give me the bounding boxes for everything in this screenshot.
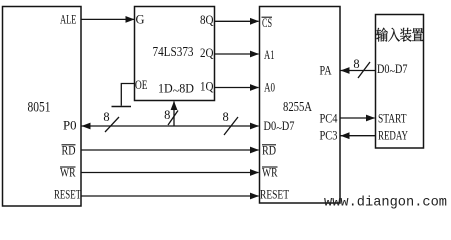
wire RESET (8051 to 8255) xyxy=(81,193,259,200)
svg-text:CS: CS xyxy=(262,16,272,30)
wire PA bus from input device D0~D7 xyxy=(341,67,376,74)
svg-text:RESET: RESET xyxy=(260,188,289,202)
bus width label 8 (near P0) xyxy=(103,110,109,124)
bus width slash on branch to 74LS373 xyxy=(168,111,178,126)
pin label 1Q xyxy=(200,80,214,94)
pin label 1D~8D xyxy=(158,81,194,98)
pin label OE xyxy=(135,78,148,92)
svg-text:8: 8 xyxy=(353,57,359,71)
pin label RESET (8051) xyxy=(54,188,81,202)
svg-text:ALE: ALE xyxy=(60,13,77,27)
svg-text:8255A: 8255A xyxy=(283,100,313,115)
svg-text:74LS373: 74LS373 xyxy=(153,45,194,60)
pin label REDAY xyxy=(378,129,408,143)
pin label WR (8255, active low) xyxy=(262,166,278,180)
svg-text:START: START xyxy=(378,112,407,126)
svg-text:8: 8 xyxy=(164,108,170,122)
pin label PC4 xyxy=(320,112,339,126)
pin label START xyxy=(378,112,407,126)
wire bus branch to 1D~8D xyxy=(171,101,178,126)
block 74LS373 (address latch) xyxy=(135,7,215,101)
pin label G xyxy=(136,13,145,27)
svg-text:WR: WR xyxy=(60,166,76,180)
bus width label 8 (PA bus) xyxy=(353,57,359,71)
svg-text:www.diangon.com: www.diangon.com xyxy=(324,195,447,211)
svg-text:8: 8 xyxy=(103,110,109,124)
pin label 2Q xyxy=(200,46,214,60)
pin label WR (8051, active low) xyxy=(60,166,76,180)
svg-text:WR: WR xyxy=(262,166,278,180)
pin label D0~D7 (input device) xyxy=(377,62,408,78)
svg-text:PA: PA xyxy=(320,64,332,78)
svg-text:RD: RD xyxy=(62,144,76,158)
pin label D0~D7 (8255) xyxy=(264,119,295,135)
svg-text:1D~8D: 1D~8D xyxy=(158,81,194,98)
pin label CS (active low) xyxy=(262,16,273,30)
wire OE to ground xyxy=(121,84,134,106)
svg-text:D0~D7: D0~D7 xyxy=(264,119,295,135)
wire 1Q to A0 xyxy=(215,84,260,91)
svg-text:2Q: 2Q xyxy=(200,46,214,60)
svg-text:RESET: RESET xyxy=(54,188,81,202)
svg-text:1Q: 1Q xyxy=(200,80,214,94)
wire 8Q to CS xyxy=(215,18,260,25)
svg-text:A0: A0 xyxy=(264,80,275,94)
label 8255A xyxy=(283,100,313,115)
pin label RD (8051, active low) xyxy=(62,144,76,158)
wire 2Q to A1 xyxy=(215,51,260,58)
label 8051 xyxy=(28,99,51,115)
label 输入装置 (input device) xyxy=(376,28,423,42)
wire P0 data bus (8051 P0 - 8255 D0~D7) xyxy=(82,123,260,130)
bus width slash on PA bus xyxy=(358,62,370,78)
bus width label 8 (near 8255) xyxy=(222,110,228,124)
pin label P0 xyxy=(63,119,77,133)
svg-text:8: 8 xyxy=(222,110,228,124)
block 8051 (MCU) xyxy=(3,7,82,207)
watermark www.diangon.com xyxy=(324,195,447,211)
pin label ALE xyxy=(60,13,77,27)
pin label A1 xyxy=(264,48,275,62)
wire WR (8051 to 8255) xyxy=(81,169,259,176)
block input device (输入装置) xyxy=(376,15,424,149)
pin label 8Q xyxy=(200,13,214,27)
pin label RD (8255, active low) xyxy=(262,144,276,158)
svg-text:OE: OE xyxy=(135,78,148,92)
svg-text:A1: A1 xyxy=(264,48,275,62)
bus width label 8 (branch) xyxy=(164,108,170,122)
wire ALE to G xyxy=(81,16,135,23)
bus width slash near 8051 P0 xyxy=(105,117,119,132)
pin label RESET (8255) xyxy=(260,188,289,202)
block 8255A (programmable peripheral interface) xyxy=(260,7,341,204)
wire REDAY to PC3 xyxy=(341,132,376,139)
pin label A0 xyxy=(264,80,275,94)
svg-text:G: G xyxy=(136,13,145,27)
pin label PC3 xyxy=(320,129,338,143)
svg-text:D0~D7: D0~D7 xyxy=(377,62,408,78)
label 74LS373 xyxy=(153,45,194,60)
wire RD (8051 to 8255) xyxy=(81,147,259,154)
wire PC4 to START xyxy=(340,115,375,122)
svg-text:P0: P0 xyxy=(63,119,77,133)
bus width slash near 8255 D0~D7 xyxy=(224,117,238,135)
svg-text:8051: 8051 xyxy=(28,99,51,115)
svg-text:REDAY: REDAY xyxy=(378,129,408,143)
svg-text:RD: RD xyxy=(262,144,276,158)
svg-text:PC3: PC3 xyxy=(320,129,338,143)
svg-text:8Q: 8Q xyxy=(200,13,214,27)
svg-text:PC4: PC4 xyxy=(320,112,339,126)
ground symbol xyxy=(112,106,132,108)
pin label PA xyxy=(320,64,332,78)
